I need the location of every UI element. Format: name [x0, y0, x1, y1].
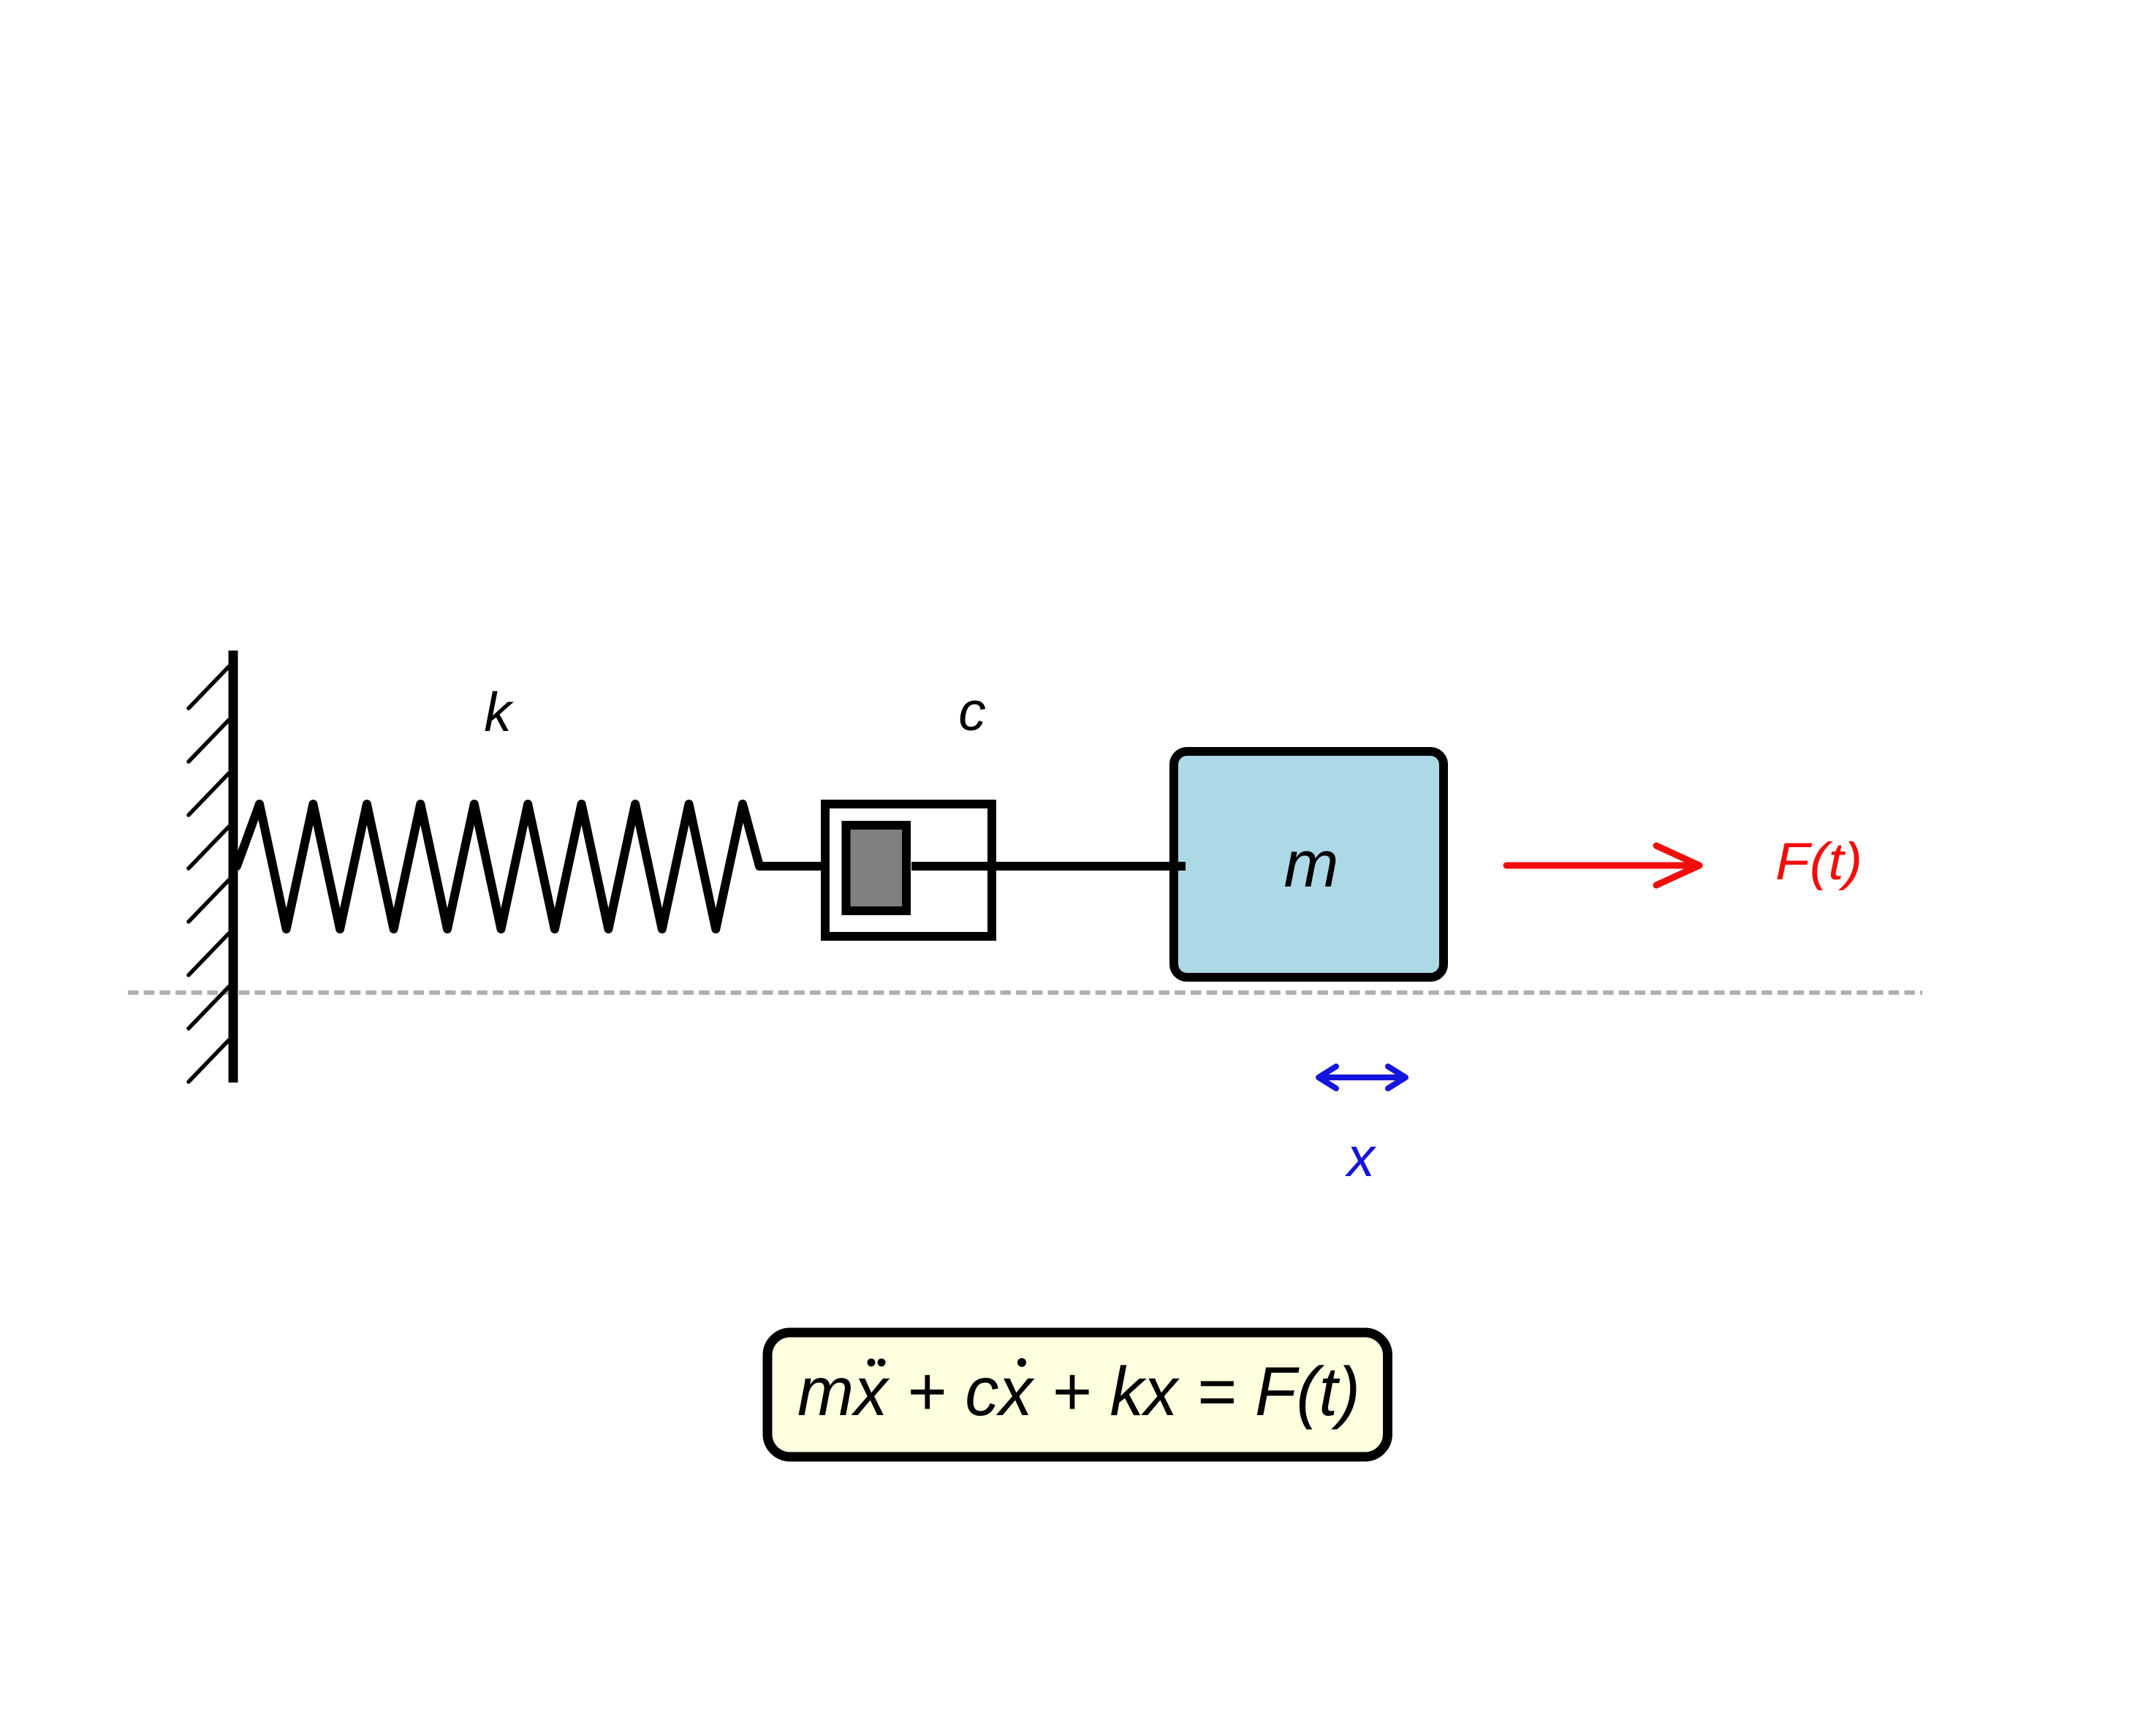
piston rod (damper to mass) [911, 862, 1186, 871]
mass m [1174, 751, 1444, 977]
svg-text:k: k [484, 681, 514, 743]
damper cylinder c [825, 804, 992, 936]
equation x-dot dot [1017, 1358, 1026, 1367]
equation x-double-dot dots [868, 1359, 876, 1367]
svg-text:x: x [1344, 1126, 1377, 1189]
displacement arrow x [1319, 1066, 1406, 1088]
force arrow F(t) [1506, 846, 1699, 885]
wall hatching [189, 667, 229, 1082]
wire spring to damper [759, 862, 825, 871]
ground dashed line [128, 990, 1922, 995]
damper piston [846, 825, 907, 911]
equation box [767, 1333, 1388, 1457]
svg-text:F(t): F(t) [1775, 833, 1862, 891]
svg-text:c: c [958, 681, 986, 742]
spring k [237, 804, 759, 929]
wall [229, 651, 238, 1083]
svg-text:m: m [1284, 828, 1339, 901]
